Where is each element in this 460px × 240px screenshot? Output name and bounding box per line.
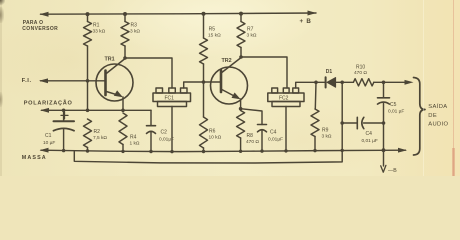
svg-text:C2: C2 xyxy=(161,130,168,136)
wire column D1 junction down to ground xyxy=(341,82,343,151)
svg-text:R7: R7 xyxy=(247,27,254,33)
wire FC2 output riser xyxy=(296,82,325,88)
svg-text:SAÍDA: SAÍDA xyxy=(428,103,447,110)
resistor R2 7.5k xyxy=(84,119,92,148)
node top rail arrow left (PARA O CONVERSOR) xyxy=(40,12,49,17)
node junction C4 right xyxy=(382,121,386,125)
svg-text:470 Ω: 470 Ω xyxy=(246,139,259,145)
svg-text:TR1: TR1 xyxy=(105,56,115,62)
node output arrow top xyxy=(405,80,414,85)
svg-text:—B: —B xyxy=(388,168,397,174)
transistor TR2 xyxy=(211,67,248,104)
node POLARIZACAO arrow xyxy=(40,108,49,113)
wire ground rail MASSA xyxy=(41,150,406,151)
wire TR1 collector to FC1 xyxy=(125,58,172,88)
node junction R9 top xyxy=(314,81,318,85)
node junction D1/R10/C4 column xyxy=(340,81,344,85)
svg-text:15 kΩ: 15 kΩ xyxy=(208,33,221,39)
resistor R4 1k xyxy=(119,113,127,145)
node junction R7 top xyxy=(239,12,243,16)
svg-text:0,01 µF: 0,01 µF xyxy=(388,109,404,115)
node junction C1 top xyxy=(62,109,66,113)
wire TR2 emitter down xyxy=(240,99,242,109)
svg-text:CONVERSOR: CONVERSOR xyxy=(22,26,58,32)
transistor TR1 xyxy=(96,64,133,101)
resistor R10 470 xyxy=(353,79,373,86)
resistor R6 10k xyxy=(203,82,205,117)
wire top supply rail xyxy=(41,13,317,14)
wire FC1 output to TR2 base xyxy=(184,82,221,88)
wire POLARIZACAO bias line xyxy=(42,109,152,111)
svg-text:470 Ω: 470 Ω xyxy=(354,70,367,76)
svg-text:R8: R8 xyxy=(247,133,254,139)
capacitor C1 10uF electrolytic xyxy=(63,110,65,121)
svg-text:R9: R9 xyxy=(322,128,329,134)
resistor R5 15k xyxy=(203,14,205,38)
svg-text:1 kΩ: 1 kΩ xyxy=(130,141,140,147)
node junction R2 top xyxy=(86,109,90,113)
svg-text:R10: R10 xyxy=(356,65,365,71)
svg-text:C4: C4 xyxy=(270,130,277,136)
svg-text:MASSA: MASSA xyxy=(22,155,47,161)
node junction R5 top xyxy=(202,12,206,16)
node junction R5/R6/base TR2 xyxy=(202,80,206,84)
svg-text:PARA O: PARA O xyxy=(23,20,44,26)
node TR2 emitter junction xyxy=(239,107,243,111)
svg-text:R5: R5 xyxy=(209,27,216,33)
node junction R10/C5 xyxy=(382,81,386,85)
svg-text:+ B: + B xyxy=(300,18,312,25)
svg-text:7,5 kΩ: 7,5 kΩ xyxy=(93,135,107,141)
svg-text:C4: C4 xyxy=(366,131,373,137)
svg-text:10 kΩ: 10 kΩ xyxy=(209,135,222,141)
svg-text:DE: DE xyxy=(428,113,437,119)
svg-text:D1: D1 xyxy=(326,69,333,75)
resistor R3 3k xyxy=(124,14,126,22)
svg-text:R6: R6 xyxy=(209,129,216,135)
node output arrow bottom xyxy=(398,148,407,153)
node F.I. arrow xyxy=(39,78,48,83)
svg-text:F.I.: F.I. xyxy=(22,78,32,84)
resistor R1 33k xyxy=(87,14,89,21)
svg-text:0,01 µF: 0,01 µF xyxy=(362,138,378,144)
node output brace xyxy=(414,78,426,156)
wire FC1 ground lead xyxy=(171,107,173,153)
ceramic filter FC2 xyxy=(272,88,278,93)
node junction base line / R1R2 column xyxy=(86,79,90,83)
svg-text:FC1: FC1 xyxy=(165,96,175,102)
capacitor C4 coupling xyxy=(342,122,357,124)
capacitor C4 emitter bypass xyxy=(258,124,267,126)
svg-text:TR2: TR2 xyxy=(222,58,232,64)
wire TR1 emitter down xyxy=(122,97,124,110)
svg-text:3 kΩ: 3 kΩ xyxy=(247,33,257,39)
svg-text:R4: R4 xyxy=(130,135,137,141)
diode D1 (cathode left) xyxy=(325,77,327,87)
svg-text:C1: C1 xyxy=(45,133,52,139)
svg-text:POLARIZAÇÃO: POLARIZAÇÃO xyxy=(24,100,73,107)
node junction C4 left xyxy=(340,121,344,125)
svg-text:R1: R1 xyxy=(93,23,100,29)
node MASSA arrow xyxy=(40,148,49,153)
svg-text:R2: R2 xyxy=(94,129,101,135)
svg-text:3 kΩ: 3 kΩ xyxy=(130,28,140,34)
paper scan artifacts xyxy=(0,0,5,5)
node junction R1 top xyxy=(86,12,90,16)
svg-text:R3: R3 xyxy=(131,23,138,29)
svg-text:0,01µF: 0,01µF xyxy=(268,136,283,142)
node junction dots ground rail xyxy=(62,148,386,153)
wire TR2 collector to FC2 xyxy=(241,57,287,88)
svg-text:10 µF: 10 µF xyxy=(43,140,55,146)
resistor R7 3k xyxy=(240,14,242,22)
svg-text:3 kΩ: 3 kΩ xyxy=(322,134,332,140)
wire ground return loop xyxy=(74,151,342,163)
svg-text:FC2: FC2 xyxy=(279,96,289,102)
ceramic filter FC1 xyxy=(156,88,163,93)
node junction TR1 emitter / R4 xyxy=(121,109,125,113)
wire F.I. input line to TR1 base xyxy=(41,80,106,82)
capacitor C2 xyxy=(150,110,152,125)
svg-text:33 kΩ: 33 kΩ xyxy=(93,28,106,34)
wire FC2 ground lead xyxy=(285,107,287,152)
node junction R3 top xyxy=(123,12,127,16)
node TR2 collector junction xyxy=(239,55,243,59)
svg-text:0,01µF: 0,01µF xyxy=(159,136,174,142)
node +B arrow right xyxy=(308,11,317,16)
resistor R9 3k xyxy=(314,82,317,109)
svg-text:AUDIO: AUDIO xyxy=(428,122,448,128)
resistor R8 470 xyxy=(237,111,245,139)
wire R1 bottom through base line to bias line xyxy=(87,46,89,110)
capacitor C5 xyxy=(383,82,385,98)
wire TR2 emitter to C4 xyxy=(241,109,262,125)
node TR1 collector junction xyxy=(123,56,127,60)
svg-text:C5: C5 xyxy=(390,102,397,108)
node -B drop arrow xyxy=(383,150,385,166)
